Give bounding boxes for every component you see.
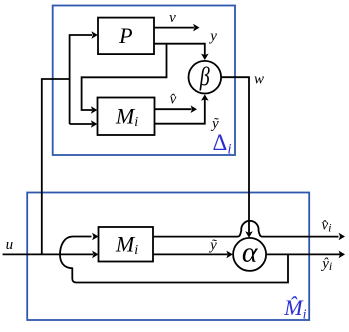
summing node beta — [189, 61, 222, 94]
wire branch from u up into lower M_i top input — [60, 237, 92, 255]
box Delta_i (blue, upper subsystem boundary) — [53, 6, 235, 156]
block M_i (upper) — [98, 98, 155, 136]
svg-text:Δi: Δi — [213, 130, 232, 158]
wire y_tilde of lower M_i into alpha — [153, 253, 228, 255]
svg-text:ŷi: ŷi — [320, 256, 332, 273]
wire y feedback from P down into upper M_i top input — [82, 44, 167, 110]
wire u input line into lower M_i — [3, 253, 93, 255]
wire u riser (up to Delta_i input bus) — [42, 79, 70, 254]
svg-text:α: α — [242, 237, 259, 268]
svg-text:β: β — [199, 62, 210, 91]
wire y_hat_i output of alpha — [266, 253, 340, 255]
box M_hat_i (blue, lower subsystem boundary) — [27, 193, 309, 321]
svg-text:w: w — [254, 72, 264, 88]
wire v output of P — [154, 27, 194, 29]
summing node alpha — [233, 238, 266, 271]
svg-text:P: P — [118, 23, 132, 48]
wire y_tilde output of upper M_i up into beta — [155, 100, 205, 124]
svg-text:M̂i: M̂i — [283, 295, 306, 322]
wire w from beta down into alpha — [221, 77, 249, 232]
wire bus arm into upper M_i lower input — [70, 123, 92, 125]
block P — [98, 18, 154, 55]
svg-text:v̂i: v̂i — [321, 218, 331, 235]
wire v_hat output of upper M_i — [155, 108, 192, 110]
wire y output of P into beta — [154, 44, 205, 55]
svg-text:v̂: v̂ — [170, 92, 177, 108]
wire input bus to block P — [70, 35, 92, 124]
svg-text:y: y — [208, 29, 217, 45]
svg-text:u: u — [6, 237, 14, 253]
wire u feedthrough branch (down, under M_i, up to y_hat_i line) — [60, 254, 288, 282]
svg-text:v: v — [169, 10, 176, 26]
block M_i (lower) — [99, 227, 154, 262]
svg-text:ỹ: ỹ — [208, 238, 217, 254]
wire v_hat_i output of lower M_i with hop over w — [153, 221, 339, 237]
